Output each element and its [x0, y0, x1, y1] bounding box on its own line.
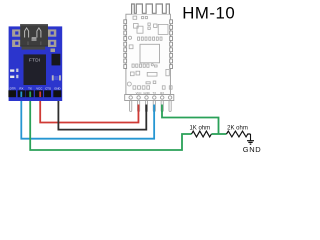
wire tails over legs — [138, 105, 162, 113]
USB mini connector J1 — [20, 24, 48, 49]
HM-10 antenna meander — [132, 4, 170, 14]
svg-text:GND: GND — [54, 86, 60, 90]
HM-10 left castellation pads — [124, 20, 127, 69]
HM-10 right castellation pads — [170, 20, 173, 69]
wire FTDI TX to resistor divider (green) — [30, 92, 191, 151]
HM-10 hole bottom-left — [127, 82, 131, 86]
node junction between R1 and R2 (green) — [211, 133, 226, 135]
capacitor bottom-right of FTDI — [52, 75, 61, 80]
FTDI pin labels — [10, 86, 61, 90]
HM-10 hole top-left — [128, 36, 131, 39]
svg-text:GND: GND — [243, 145, 261, 154]
svg-text:DTR: DTR — [10, 86, 16, 90]
svg-text:RX: RX — [19, 86, 23, 90]
HM-10 main IC — [129, 44, 159, 63]
resistor R2 2K ohm — [227, 125, 251, 137]
HM-10 header strip — [125, 95, 174, 101]
HM-10 pin holes — [129, 96, 172, 99]
RX LED — [10, 69, 18, 72]
HM-10 pads below IC — [132, 64, 157, 68]
resistor R1 1K ohm — [189, 125, 211, 137]
HM-10 mid components — [134, 23, 169, 34]
wire stubs over pads — [21, 92, 40, 98]
HM-10 small parts top row — [133, 16, 148, 19]
TX LED — [10, 75, 18, 78]
FTDI pin pads — [8, 90, 61, 97]
ground symbol — [243, 134, 261, 154]
HM-10 bottom pads — [133, 81, 172, 89]
FTDI USB pad top-left — [12, 29, 20, 47]
wire HM10 RX to divider junction (green) — [162, 104, 219, 134]
FTDI USB pad top-right — [48, 29, 56, 47]
HM-10 pin labels — [136, 91, 165, 95]
FTDI module board — [9, 26, 63, 101]
svg-text:HM-10: HM-10 — [182, 3, 235, 22]
FTDI chip U1 — [24, 54, 47, 85]
HM-10 pad row — [138, 37, 162, 40]
svg-text:TX: TX — [28, 86, 32, 90]
wire FTDI RX to HM10 TX (blue) — [21, 92, 154, 139]
svg-text:CTS: CTS — [45, 86, 51, 90]
HM-10 module board — [126, 14, 170, 94]
HM-10 lower components — [130, 69, 169, 76]
svg-text:FTDI: FTDI — [29, 58, 40, 63]
wire FTDI VCC to HM10 VCC (red) — [40, 92, 138, 123]
HM-10 pin legs — [130, 101, 172, 112]
svg-text:VCC: VCC — [36, 86, 42, 90]
svg-text:2K ohm: 2K ohm — [227, 125, 248, 131]
svg-text:1K ohm: 1K ohm — [189, 125, 210, 131]
component right of chip — [51, 49, 61, 66]
wire FTDI GND to HM10 GND (black) — [58, 92, 146, 130]
